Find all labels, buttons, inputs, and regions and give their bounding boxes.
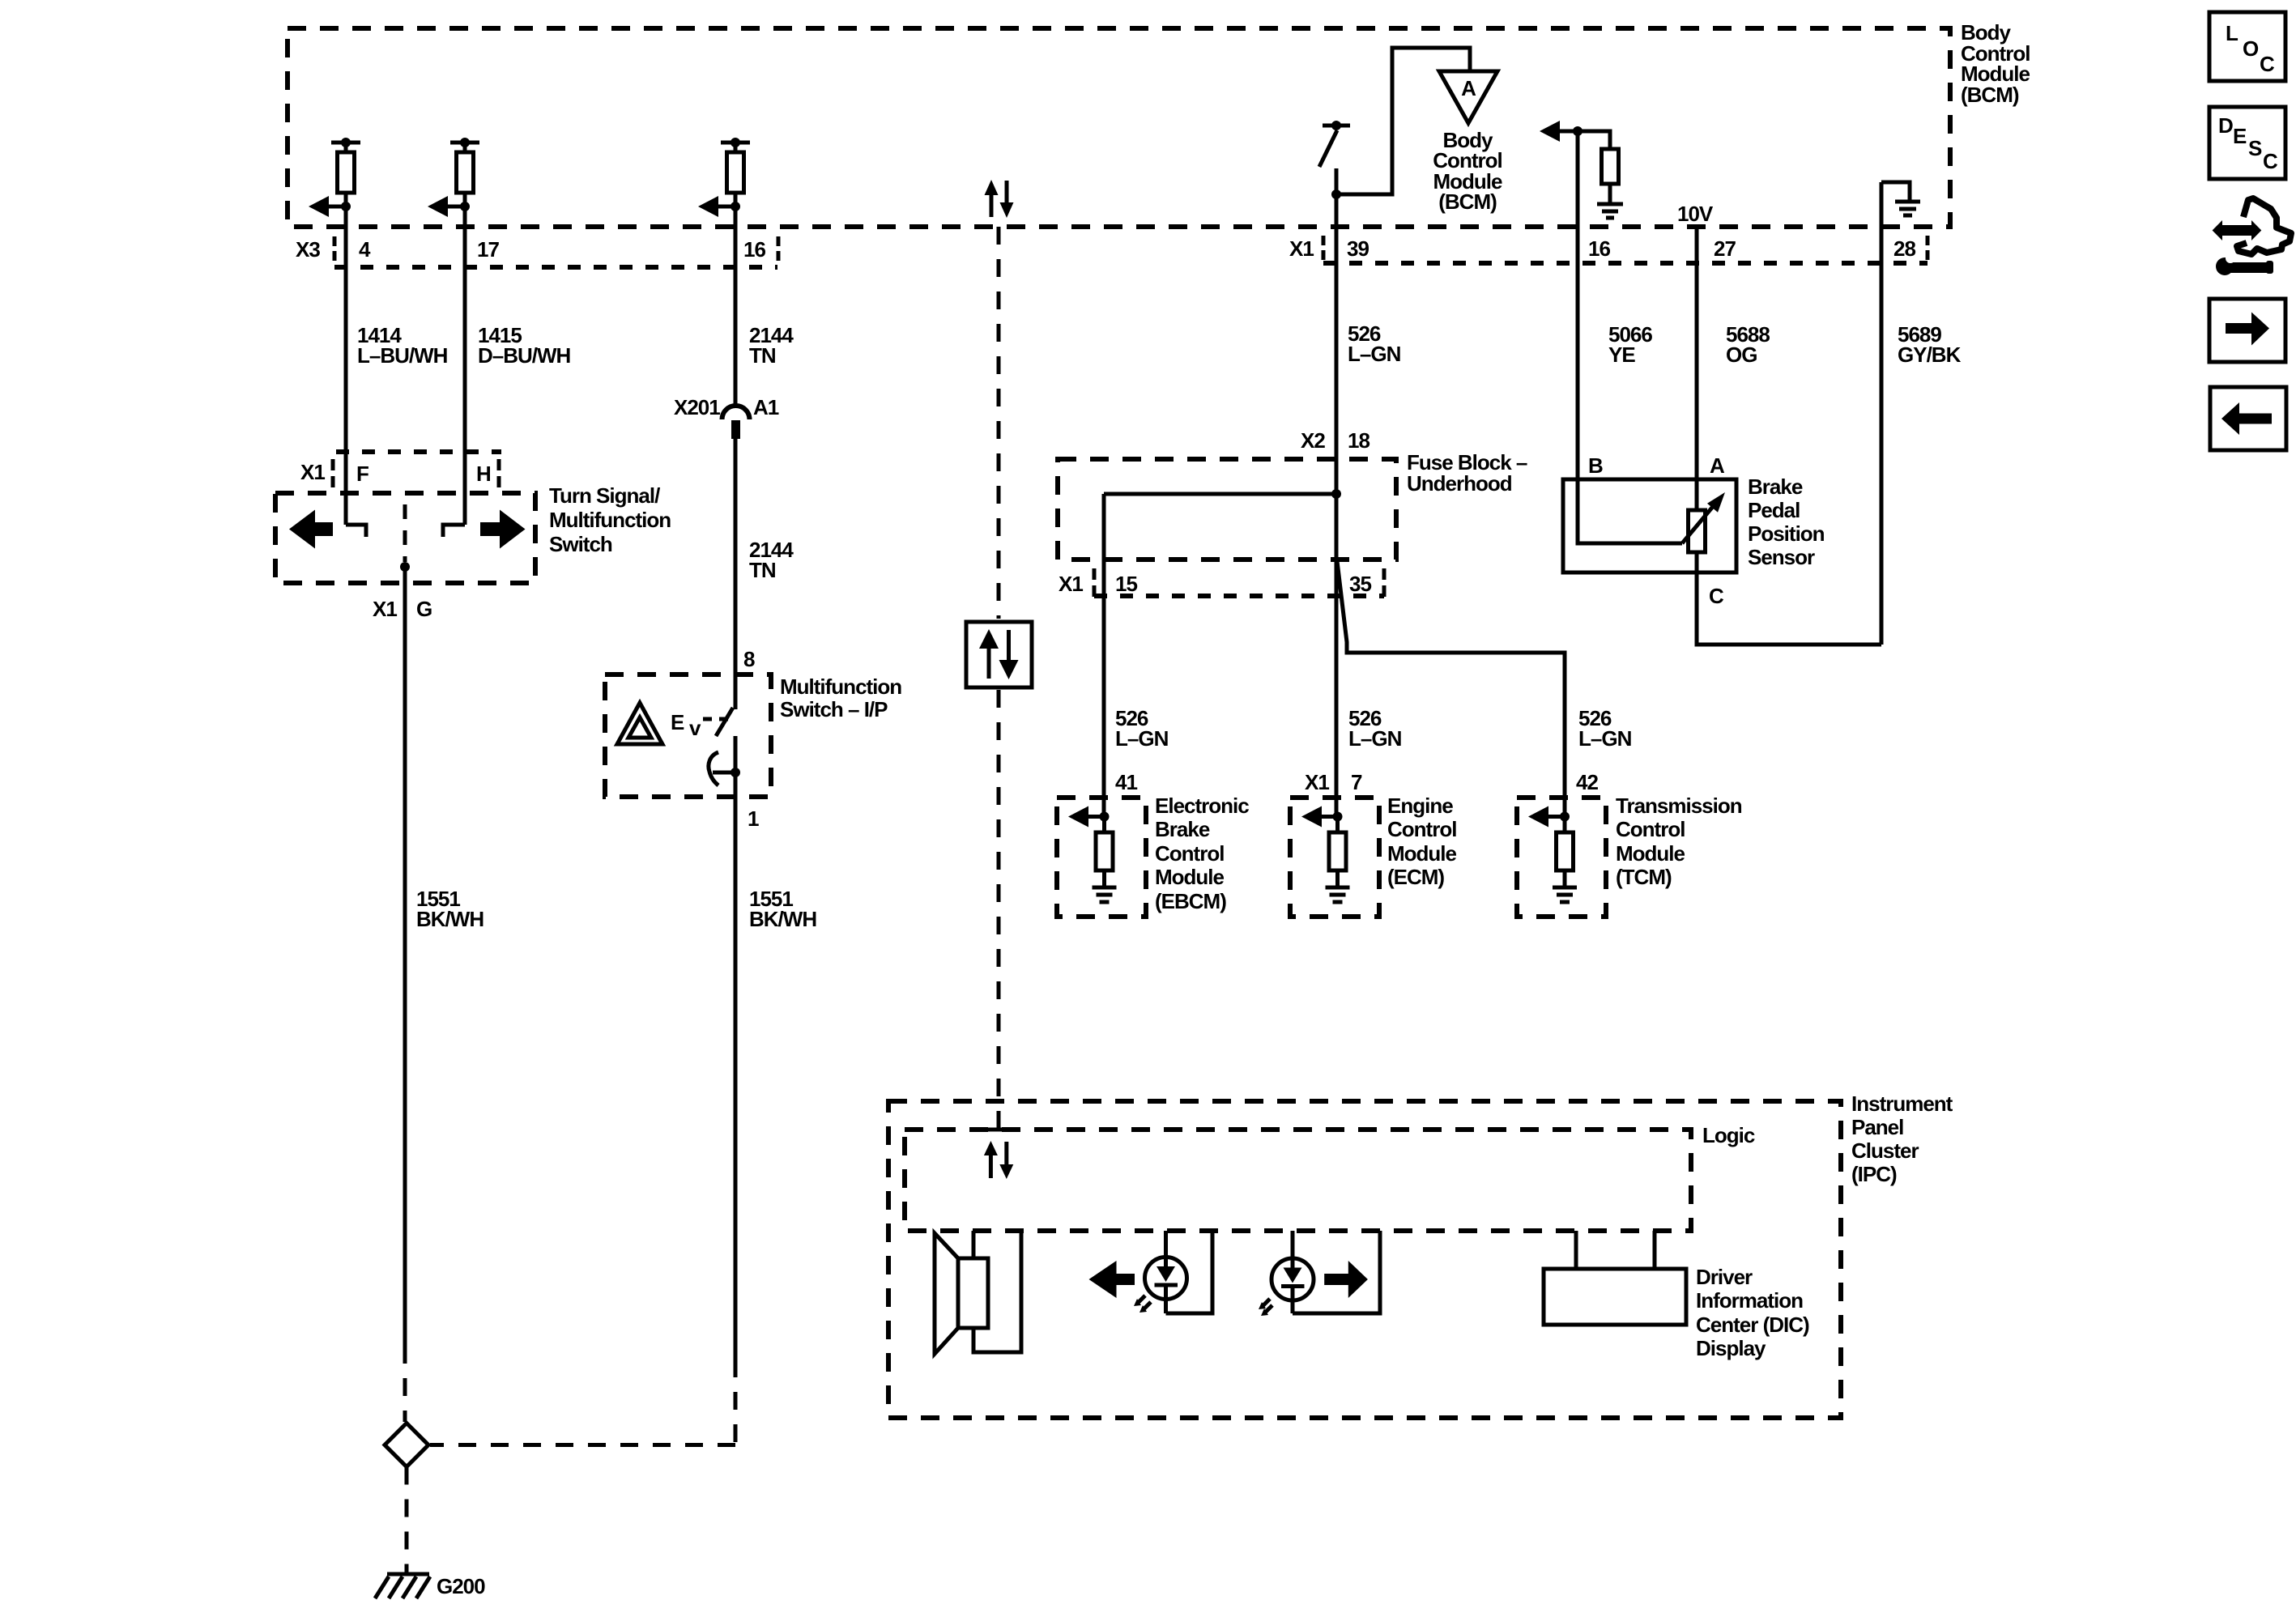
svg-text:L–BU/WH: L–BU/WH <box>357 343 448 368</box>
wire to ground <box>1563 870 1567 886</box>
svg-text:(IPC): (IPC) <box>1851 1162 1897 1186</box>
svg-text:Panel: Panel <box>1851 1115 1903 1139</box>
dashed segment below splice <box>405 1467 409 1573</box>
svg-text:15: 15 <box>1115 572 1137 596</box>
DESC icon box <box>2209 107 2285 179</box>
hazard symbol inner triangle <box>628 717 651 738</box>
svg-text:YE: YE <box>1608 343 1635 367</box>
svg-text:Module: Module <box>1616 841 1685 866</box>
left LED return <box>1166 1231 1213 1313</box>
resistor (driver) pin 16 <box>727 152 744 193</box>
svg-text:E: E <box>671 710 684 734</box>
svg-text:8: 8 <box>743 647 755 671</box>
wire pin 4 down <box>344 206 348 525</box>
switch contact H (elbow) <box>443 525 465 537</box>
driver output (hazard feed, pin 16): supply bar <box>721 141 750 145</box>
svg-text:Transmission: Transmission <box>1616 794 1742 818</box>
junction dot on bar <box>341 138 351 147</box>
repair icon: double arrow <box>2213 220 2222 240</box>
wire pin G down <box>403 567 407 1346</box>
net reference triangle A <box>1439 71 1497 123</box>
back arrow icon box <box>2210 387 2286 450</box>
Instrument Panel Cluster (IPC) dashed box <box>888 1101 1841 1418</box>
X3 connector line (left) <box>334 265 777 270</box>
svg-text:Logic: Logic <box>1702 1123 1755 1147</box>
junction dot <box>1573 126 1582 136</box>
svg-text:Multifunction: Multifunction <box>549 508 671 532</box>
ECM dashed box <box>1290 798 1379 917</box>
svg-text:(BCM): (BCM) <box>1438 189 1497 214</box>
dashed ground run from switch <box>734 1360 738 1445</box>
svg-text:17: 17 <box>477 237 499 262</box>
svg-text:Information: Information <box>1696 1288 1803 1313</box>
wire pin 39 down <box>1335 194 1339 816</box>
svg-text:L–GN: L–GN <box>1578 726 1632 751</box>
potentiometer element <box>1689 510 1706 552</box>
resistor (driver) pin 17 <box>457 152 474 193</box>
svg-text:X1: X1 <box>1059 572 1083 596</box>
left turn block arrow <box>289 510 333 549</box>
svg-text:Module: Module <box>1387 841 1457 866</box>
junction dot <box>400 562 410 572</box>
sensor internal wire from B <box>1578 479 1682 543</box>
hazard symbol outer triangle <box>617 703 662 744</box>
resistor <box>1602 149 1619 184</box>
right LED return <box>1293 1231 1380 1313</box>
resistor <box>1096 832 1113 870</box>
wire pin 16 down to X201 <box>734 206 738 407</box>
svg-text:GY/BK: GY/BK <box>1898 343 1962 367</box>
dot on bar <box>1331 121 1341 130</box>
svg-text:41: 41 <box>1115 770 1137 794</box>
svg-text:18: 18 <box>1348 428 1370 453</box>
junction dot <box>1333 812 1343 822</box>
svg-text:X1: X1 <box>1305 770 1329 794</box>
wire to net A triangle <box>1336 48 1470 194</box>
dashed segment above splice <box>403 1346 407 1422</box>
serial data arrows (IPC) <box>984 1141 998 1155</box>
EBCM input arrow <box>1068 806 1088 828</box>
output arrow left <box>718 205 735 209</box>
Multifunction Switch I/P dashed box <box>605 674 771 797</box>
junction dot <box>731 768 740 777</box>
svg-text:Control: Control <box>1387 817 1456 841</box>
wire to pull-up resistor <box>1578 131 1610 149</box>
resistor <box>1329 832 1346 870</box>
LED cathode bar <box>1155 1283 1178 1287</box>
switch contact F (elbow) <box>346 525 366 537</box>
wire <box>463 143 467 206</box>
X1 connector line (fuse block) <box>1094 594 1384 598</box>
svg-text:27: 27 <box>1714 236 1736 261</box>
svg-text:1: 1 <box>748 806 759 831</box>
svg-text:BK/WH: BK/WH <box>749 907 816 931</box>
svg-text:F: F <box>356 462 368 486</box>
junction dot <box>460 202 470 211</box>
svg-text:X2: X2 <box>1301 428 1325 453</box>
wire to ground <box>1335 870 1340 886</box>
svg-text:Underhood: Underhood <box>1407 471 1512 496</box>
svg-text:Control: Control <box>1155 841 1224 866</box>
left LED circle <box>1145 1257 1187 1300</box>
wire <box>1563 817 1567 833</box>
light rays <box>1262 1299 1270 1307</box>
svg-text:7: 7 <box>1351 770 1362 794</box>
svg-text:Sensor: Sensor <box>1748 545 1815 569</box>
svg-text:4: 4 <box>359 237 371 262</box>
repair icon: connector outline <box>2237 198 2291 254</box>
svg-text:Multifunction: Multifunction <box>780 674 901 699</box>
svg-text:28: 28 <box>1893 236 1915 261</box>
svg-text:(EBCM): (EBCM) <box>1155 889 1226 913</box>
svg-text:Brake: Brake <box>1155 817 1210 841</box>
TCM dashed box <box>1517 798 1606 917</box>
driver output (left turn, pin 4): supply bar <box>331 141 360 145</box>
LED wire below <box>1164 1285 1168 1313</box>
wire pin 28 (5689): hook to ground <box>1881 182 1910 200</box>
up arrow <box>979 629 999 649</box>
svg-text:(TCM): (TCM) <box>1616 865 1672 889</box>
X1 connector line (right) <box>1323 261 1928 266</box>
DIC display rect <box>1544 1269 1686 1325</box>
Fuse Block - Underhood dashed box <box>1058 459 1396 560</box>
svg-text:Driver: Driver <box>1696 1265 1753 1289</box>
wire C down <box>1697 552 1881 645</box>
resistor (driver) pin 4 <box>338 152 355 193</box>
wire pin 28 down <box>1880 182 1884 645</box>
junction dot <box>1560 812 1570 822</box>
svg-text:L–GN: L–GN <box>1115 726 1169 751</box>
svg-text:O: O <box>2243 36 2259 61</box>
wire to ground <box>1608 184 1612 202</box>
wire <box>344 143 348 206</box>
svg-text:16: 16 <box>1588 236 1610 261</box>
svg-text:L–GN: L–GN <box>1348 726 1402 751</box>
momentary contact hook <box>709 752 718 785</box>
serial data arrows (BCM) <box>985 180 999 195</box>
svg-text:E: E <box>2233 124 2247 148</box>
Brake Pedal Position Sensor box <box>1563 479 1736 572</box>
output arrow left <box>328 205 346 209</box>
svg-text:35: 35 <box>1349 572 1371 596</box>
speaker return wire <box>973 1231 1021 1352</box>
svg-text:Switch – I/P: Switch – I/P <box>780 697 888 721</box>
BCM brake input: arrow left <box>1540 121 1560 142</box>
TCM input arrow <box>1528 806 1548 828</box>
svg-text:39: 39 <box>1347 236 1369 261</box>
svg-text:Display: Display <box>1696 1336 1766 1360</box>
wire pin 17 down <box>463 206 467 525</box>
svg-text:L–GN: L–GN <box>1348 342 1401 366</box>
LOC icon box <box>2209 12 2285 81</box>
internal jumper wire <box>1104 492 1336 496</box>
wire 2144 below connector <box>734 439 738 709</box>
wire <box>1335 817 1340 833</box>
svg-text:D–BU/WH: D–BU/WH <box>478 343 571 368</box>
Body Control Module (BCM) dashed box <box>288 28 1950 227</box>
svg-text:B: B <box>1588 453 1603 478</box>
svg-text:X1: X1 <box>373 597 397 621</box>
junction dot on bar <box>731 138 740 147</box>
ground G200 <box>387 1572 429 1577</box>
left turn indicator arrow <box>1089 1261 1135 1298</box>
output arrow left <box>447 205 465 209</box>
svg-text:G: G <box>416 597 432 621</box>
junction dot <box>341 202 351 211</box>
LED triangle <box>1284 1268 1302 1283</box>
svg-text:16: 16 <box>743 237 765 262</box>
right turn block arrow <box>480 510 526 549</box>
driver output (right turn, pin 17): supply bar <box>450 141 479 145</box>
svg-text:D: D <box>2218 113 2233 138</box>
wiper <box>1682 504 1715 543</box>
mechanical link dashes <box>703 717 732 721</box>
junction dot in fuse block <box>1331 489 1341 499</box>
wire through switch <box>734 736 738 1360</box>
ground symbol <box>1597 202 1623 206</box>
svg-text:X1: X1 <box>1289 236 1314 261</box>
male terminal <box>731 420 740 439</box>
svg-text:Instrument: Instrument <box>1851 1091 1953 1116</box>
svg-text:Pedal: Pedal <box>1748 498 1800 522</box>
svg-text:Switch: Switch <box>549 532 612 556</box>
svg-text:C: C <box>2263 149 2278 173</box>
resistor <box>1557 832 1574 870</box>
svg-text:OG: OG <box>1726 343 1757 367</box>
wire <box>1102 817 1106 833</box>
ECM input arrow <box>1301 806 1322 828</box>
svg-text:G200: G200 <box>437 1574 485 1598</box>
svg-text:C: C <box>1709 584 1724 608</box>
right turn indicator arrow <box>1324 1261 1368 1298</box>
junction dot on bar <box>460 138 470 147</box>
svg-text:A1: A1 <box>753 395 779 419</box>
svg-text:TN: TN <box>749 558 776 582</box>
right LED wire <box>1291 1231 1295 1268</box>
svg-text:Brake: Brake <box>1748 474 1803 499</box>
wire to EBCM <box>1102 494 1106 816</box>
hazard switch blade <box>716 708 733 736</box>
svg-text:Cluster: Cluster <box>1851 1138 1919 1163</box>
ground symbol <box>1326 886 1350 890</box>
dashed horizontal to splice <box>430 1443 735 1447</box>
svg-text:A: A <box>1710 453 1725 478</box>
svg-text:X3: X3 <box>296 237 320 262</box>
svg-text:Electronic: Electronic <box>1155 794 1249 818</box>
DIC wires <box>1574 1231 1578 1269</box>
contact bar <box>713 771 735 775</box>
terminator tick at Logic <box>987 1128 1010 1132</box>
wire to ground <box>1102 870 1106 886</box>
svg-text:BK/WH: BK/WH <box>416 907 483 931</box>
svg-text:v: v <box>689 716 701 740</box>
svg-text:Control: Control <box>1616 817 1685 841</box>
forward arrow icon box <box>2209 299 2285 362</box>
light rays <box>1137 1296 1145 1304</box>
svg-text:(ECM): (ECM) <box>1387 865 1444 889</box>
ground symbol <box>1895 200 1920 204</box>
branch to TCM (slant from pin 35) <box>1337 561 1565 816</box>
right LED circle <box>1272 1258 1314 1300</box>
svg-text:Turn Signal/: Turn Signal/ <box>549 483 660 508</box>
svg-text:Module: Module <box>1155 865 1225 889</box>
switch common (dashed stub) <box>403 504 407 562</box>
switch blade <box>1319 130 1337 167</box>
svg-text:(BCM): (BCM) <box>1961 83 2019 107</box>
svg-text:S: S <box>2248 136 2262 160</box>
svg-text:L: L <box>2226 21 2238 45</box>
inline connector X201 A1: female arc <box>722 406 750 419</box>
wire pin 16 (5066) down <box>1576 131 1580 479</box>
X1 connector line (turn signal switch) <box>336 449 501 454</box>
ground symbol <box>1093 886 1117 890</box>
junction dot <box>1331 189 1341 199</box>
svg-text:TN: TN <box>749 343 776 368</box>
chime speaker: wire <box>972 1231 976 1258</box>
speaker horn <box>935 1233 958 1354</box>
LED triangle <box>1157 1266 1175 1282</box>
svg-text:Center (DIC): Center (DIC) <box>1696 1313 1809 1337</box>
EBCM dashed box <box>1057 798 1146 917</box>
serial data dashed line (lower) <box>997 690 1001 1128</box>
BCM internal switch: fixed bar <box>1323 124 1350 128</box>
left LED wire <box>1164 1231 1168 1268</box>
svg-text:42: 42 <box>1576 770 1598 794</box>
svg-text:X1: X1 <box>300 460 325 484</box>
svg-text:X201: X201 <box>674 395 720 419</box>
Logic dashed box <box>905 1130 1691 1231</box>
speaker driver rect <box>958 1258 988 1328</box>
svg-text:H: H <box>476 462 491 486</box>
splice diamond <box>385 1423 428 1467</box>
wire pin 27 (5688) down <box>1695 227 1699 510</box>
LED wire below <box>1291 1286 1295 1313</box>
svg-text:Engine: Engine <box>1387 794 1453 818</box>
svg-text:Position: Position <box>1748 521 1825 546</box>
wire below blade <box>1335 168 1339 194</box>
Turn Signal / Multifunction Switch dashed box <box>275 493 535 583</box>
repair icon: wrench <box>2216 257 2234 275</box>
LED cathode bar <box>1281 1284 1305 1288</box>
junction dot <box>731 202 740 211</box>
down arrow <box>1007 630 1011 662</box>
svg-text:A: A <box>1461 76 1476 100</box>
junction dot <box>1100 812 1110 822</box>
serial data gateway box <box>966 622 1032 687</box>
wire <box>734 143 738 206</box>
serial data dashed line (upper) <box>997 227 1001 619</box>
svg-text:C: C <box>2260 52 2275 76</box>
svg-text:10V: 10V <box>1677 202 1714 226</box>
ground symbol <box>1553 886 1577 890</box>
